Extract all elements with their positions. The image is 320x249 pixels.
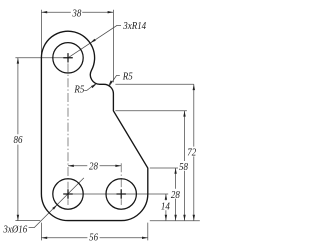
svg-text:72: 72 xyxy=(187,147,196,159)
svg-text:R5: R5 xyxy=(122,71,133,83)
svg-text:3xØ16: 3xØ16 xyxy=(2,224,27,236)
svg-text:R5: R5 xyxy=(73,84,84,96)
svg-text:28: 28 xyxy=(89,161,98,173)
svg-text:86: 86 xyxy=(14,135,23,147)
svg-text:56: 56 xyxy=(89,232,98,244)
svg-text:58: 58 xyxy=(179,162,188,174)
svg-text:14: 14 xyxy=(161,201,170,213)
svg-text:3xR14: 3xR14 xyxy=(122,20,146,32)
svg-text:38: 38 xyxy=(71,8,81,20)
svg-text:28: 28 xyxy=(171,189,180,201)
